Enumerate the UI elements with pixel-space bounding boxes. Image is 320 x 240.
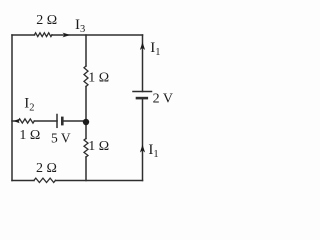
svg-text:2 Ω: 2 Ω: [36, 161, 57, 176]
svg-text:1 Ω: 1 Ω: [88, 139, 109, 154]
svg-text:2 V: 2 V: [153, 92, 173, 107]
svg-text:1 Ω: 1 Ω: [19, 128, 40, 143]
svg-text:5 V: 5 V: [51, 130, 71, 145]
svg-text:1 Ω: 1 Ω: [88, 70, 109, 85]
svg-text:2 Ω: 2 Ω: [36, 13, 57, 28]
